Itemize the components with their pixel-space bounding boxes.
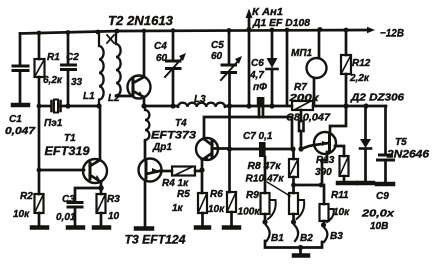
svg-text:С5: С5 (211, 40, 224, 51)
node C8 bottom junction (298, 146, 303, 151)
ground R5 (196, 225, 209, 230)
label R11 (331, 190, 350, 218)
label R7 (288, 82, 320, 104)
wire R2 top (38, 170, 41, 194)
node C8 junction (290, 146, 295, 151)
label C8 (286, 113, 330, 124)
wire R7 right (313, 105, 346, 108)
svg-text:−12В: −12В (380, 28, 404, 40)
node R8 bottom junction (291, 183, 296, 188)
ground R3 (94, 225, 109, 230)
winding mark x (107, 35, 114, 43)
potentiometer R7 (292, 101, 313, 110)
label R3 (107, 194, 120, 222)
label R5 (172, 189, 190, 214)
node D2 top junction (363, 103, 368, 108)
svg-text:10В: 10В (370, 221, 388, 232)
node MP1 rail junction (318, 27, 323, 32)
potentiometer R10 (289, 193, 304, 221)
label C3 (56, 194, 76, 223)
wire R8 node to R11 (294, 184, 322, 187)
switch B3 (324, 228, 327, 242)
svg-text:R6: R6 (210, 189, 223, 200)
svg-text:R5: R5 (177, 189, 190, 200)
svg-text:10к: 10к (208, 204, 225, 215)
crystal Pe1 (52, 100, 69, 113)
label L1 (83, 91, 95, 102)
rail end arrow (367, 27, 375, 33)
svg-text:МП1: МП1 (291, 48, 313, 59)
resistor R12 (341, 30, 351, 106)
wire y117 drop (291, 117, 294, 149)
label T4 (151, 118, 196, 153)
node D1 rail junction (270, 28, 275, 33)
svg-text:EFT319: EFT319 (45, 146, 91, 158)
ground R6 (224, 225, 239, 230)
svg-text:L1: L1 (83, 91, 95, 102)
label R2 (13, 191, 33, 220)
wire L1 to T1 collector (99, 106, 102, 159)
wire R1 bottom (38, 77, 41, 106)
wire R1 top (38, 33, 41, 59)
svg-text:В2: В2 (300, 233, 313, 244)
wire C2 node to L1 (68, 105, 99, 108)
svg-text:Т2 2N1613: Т2 2N1613 (108, 13, 174, 28)
svg-text:20,0х: 20,0х (361, 209, 395, 220)
potentiometer R11 (320, 204, 334, 224)
wire L2 to T2 base (116, 95, 130, 98)
label R13 (315, 155, 335, 178)
svg-text:60: 60 (211, 51, 223, 62)
wire T4 emitter (201, 160, 204, 170)
node C2 top junction (66, 30, 71, 35)
capacitor C4 variable (165, 30, 186, 106)
node R11 top junction (319, 183, 324, 188)
svg-text:Д2 DZ306: Д2 DZ306 (350, 93, 405, 104)
svg-text:Т4: Т4 (175, 118, 187, 129)
label T5 type (386, 137, 430, 161)
svg-text:пФ: пФ (253, 82, 267, 93)
wire piezo node (39, 105, 51, 108)
node R11 bottom (321, 222, 326, 227)
label B2 (300, 233, 313, 244)
resistor R6 (227, 192, 236, 226)
label Pe1 (44, 118, 63, 129)
label T3 type (125, 235, 187, 247)
svg-text:С7 0,1: С7 0,1 (243, 131, 273, 142)
wire T2 collector (143, 31, 146, 78)
node T1 emitter junction (98, 185, 104, 191)
node antenna rail junction (246, 27, 251, 32)
label T1 type (45, 133, 91, 158)
node R9 bottom (262, 219, 267, 224)
ground R2 (32, 225, 47, 230)
transistor T5 (314, 132, 336, 154)
capacitor C2 (62, 32, 76, 106)
node C5 rail junction (227, 28, 232, 33)
label R10 (246, 174, 285, 185)
svg-text:10к: 10к (333, 207, 350, 218)
node C5 bottom junction (227, 103, 232, 108)
svg-text:R1: R1 (47, 52, 60, 63)
svg-text:390: 390 (315, 167, 332, 178)
inductor L3 (178, 103, 225, 107)
wire Dr1 to T3 (144, 141, 147, 159)
svg-text:R13: R13 (316, 155, 335, 166)
wire top supply rail (20, 30, 368, 34)
node R4 R5 junction (199, 167, 204, 172)
wire T3 emitter to ground (144, 181, 147, 227)
svg-text:0,01: 0,01 (56, 212, 76, 223)
node R10 bottom (291, 219, 296, 224)
svg-text:Др1: Др1 (152, 142, 172, 153)
wire T2 emitter node (144, 105, 178, 108)
ground T3 (136, 226, 152, 231)
transistor T1 (83, 159, 107, 183)
label L3 (194, 94, 206, 105)
wire rail to R7 left (286, 30, 289, 104)
node C2 bottom junction (65, 103, 70, 108)
svg-text:В1: В1 (271, 233, 284, 244)
svg-text:R9: R9 (246, 190, 259, 201)
svg-text:R4 1к: R4 1к (162, 178, 189, 189)
switch B2 (295, 225, 299, 241)
wire R3 top (100, 188, 103, 194)
label -12V (380, 28, 404, 40)
label C7 (243, 131, 273, 142)
capacitor C1 (13, 66, 28, 103)
svg-text:4,7: 4,7 (249, 70, 264, 81)
label C4 (154, 41, 168, 64)
node piezo R1 junction (37, 104, 42, 109)
label C1 value (5, 114, 36, 137)
resistor R13 (340, 156, 349, 181)
svg-text:R3: R3 (107, 194, 120, 205)
ground D2 (358, 181, 373, 186)
wire left edge C1 drop (19, 34, 22, 66)
node R7 rail junction (285, 28, 290, 33)
svg-text:60: 60 (156, 53, 168, 64)
node L2 top junction (115, 29, 120, 34)
inductor L2 (116, 31, 121, 96)
svg-text:R2: R2 (20, 191, 33, 202)
wire switch common (265, 241, 322, 248)
capacitor C6 (257, 97, 265, 117)
label B1 (271, 233, 284, 244)
wire T5 base2 up (330, 106, 346, 134)
wire T1 emitter (100, 182, 103, 187)
svg-text:R7: R7 (294, 82, 307, 93)
svg-text:С6: С6 (251, 58, 264, 69)
svg-text:Т5: Т5 (395, 137, 407, 148)
svg-text:2,2к: 2,2к (349, 73, 370, 84)
svg-text:С8 0,047: С8 0,047 (286, 113, 330, 124)
label C6 (249, 58, 267, 93)
node R12 rail junction (344, 28, 349, 33)
svg-text:EFT373: EFT373 (151, 130, 196, 142)
wire L3 to C6 (225, 105, 257, 108)
wire R9 top (264, 157, 267, 193)
capacitor C3 (68, 203, 82, 227)
svg-text:2N2646: 2N2646 (386, 149, 430, 161)
label C5 (211, 40, 224, 62)
transistor T3 (139, 159, 162, 182)
wire T3 to R4 (160, 170, 172, 173)
wire T2 emitter (143, 97, 146, 106)
svg-text:10: 10 (108, 211, 120, 222)
label L2 (108, 93, 120, 104)
node T2 emitter junction (141, 103, 146, 108)
wire R5 top (201, 170, 204, 193)
resistor R4 (172, 167, 202, 176)
svg-text:10к: 10к (13, 209, 30, 220)
svg-text:6,2к: 6,2к (43, 75, 63, 86)
label R4 (162, 178, 189, 189)
resistor R3 (97, 194, 106, 226)
capacitor C9 (378, 106, 394, 182)
node L1 bottom junction (96, 103, 101, 108)
ground R13 (338, 181, 356, 186)
node R1 top junction (37, 31, 42, 36)
svg-text:0,047: 0,047 (5, 126, 36, 137)
label R12 (349, 58, 371, 84)
wire antenna drop (248, 29, 251, 106)
transistor T2 (128, 76, 151, 99)
node C5 line junction (227, 146, 232, 151)
resistor R2 (35, 194, 44, 226)
label C2 (66, 52, 83, 88)
microphone MP1 (307, 29, 327, 106)
svg-text:С3: С3 (62, 194, 75, 205)
node C4 bottom junction (170, 103, 175, 108)
resistor R8 (289, 159, 298, 185)
resistor R5 (198, 193, 207, 226)
wire C7 node (230, 148, 259, 151)
ground C3 (68, 225, 83, 230)
node T1 base junction (37, 168, 42, 173)
label R8 (248, 161, 282, 172)
wire R8 top (292, 149, 295, 159)
diode D1 (267, 30, 278, 106)
leader line R10 (267, 182, 290, 196)
svg-text:К Ан1: К Ан1 (252, 7, 283, 18)
capacitor C7 (259, 142, 293, 157)
label R9 (238, 190, 261, 218)
node antenna bottom junction (246, 103, 251, 108)
wire node to D2 C9 (346, 105, 386, 108)
wire R6 top (228, 149, 231, 192)
capacitor C8 (299, 110, 304, 149)
potentiometer R9 (261, 193, 276, 221)
wire C6 to y117 (259, 116, 292, 119)
label C9 (361, 191, 395, 232)
svg-text:Т1: Т1 (64, 133, 76, 144)
label T2 type (108, 13, 174, 28)
label MP1 (291, 48, 313, 59)
resistor R1 (35, 59, 45, 77)
label D2 type (350, 93, 405, 104)
wire T1 base (39, 169, 84, 172)
ground C1 (13, 103, 28, 108)
label B3 (330, 231, 343, 242)
svg-text:С9: С9 (376, 191, 389, 202)
node L1 top junction (96, 30, 101, 35)
label D1 type (252, 18, 310, 29)
choke Dr1 (145, 106, 149, 141)
svg-text:R11: R11 (331, 190, 349, 201)
wire T5 to R13 (335, 146, 344, 156)
node D1 bottom junction (269, 103, 274, 108)
svg-text:С4: С4 (154, 41, 167, 52)
svg-text:100к: 100к (238, 207, 261, 218)
svg-text:L3: L3 (194, 94, 206, 105)
wire to T5 emitter (301, 145, 315, 149)
svg-text:С1: С1 (9, 114, 22, 125)
wire T5 base1 down (322, 152, 327, 185)
label R1 (43, 52, 63, 86)
inductor L1 (99, 32, 104, 106)
svg-text:R12: R12 (352, 58, 371, 69)
svg-text:Т3 EFT124: Т3 EFT124 (125, 235, 187, 247)
wire R1 node down (38, 106, 41, 170)
ground switches (294, 248, 308, 256)
svg-text:В3: В3 (330, 231, 343, 242)
wire R11 top (321, 185, 324, 204)
wire T4 base (213, 147, 230, 150)
svg-text:С2: С2 (66, 52, 79, 63)
node R12 bottom junction (343, 103, 348, 108)
svg-text:1к: 1к (172, 203, 184, 214)
switch B1 (266, 225, 270, 241)
transistor T4 (196, 138, 218, 161)
diode D2 (360, 106, 371, 181)
wire T4 collector (204, 117, 259, 139)
wire R10 top (292, 185, 295, 193)
wire emitter to C3 (75, 188, 101, 202)
label R6 (208, 189, 225, 215)
svg-text:Пэ1: Пэ1 (44, 118, 63, 129)
svg-text:Д1 EF D108: Д1 EF D108 (252, 18, 310, 29)
node ground junction (298, 245, 303, 250)
ground C9 (377, 182, 393, 187)
wire C5 node down to R6 node (228, 106, 231, 149)
wire C6 to R7 (264, 105, 292, 108)
antenna arrow K An1 (246, 9, 253, 30)
label K An1 (252, 7, 283, 18)
svg-text:33: 33 (71, 77, 83, 88)
capacitor C5 variable (221, 30, 242, 106)
